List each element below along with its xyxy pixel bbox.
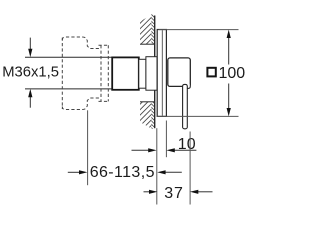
escutcheon plate (157, 30, 166, 117)
plate seam line (161, 30, 163, 116)
wall face extension line down (156, 128, 158, 204)
svg-text:10: 10 (178, 136, 196, 153)
dimension 10 right segment (174, 149, 197, 151)
wall hatching lower (106, 100, 187, 138)
dimension 66-113,5 right arrow (164, 171, 182, 173)
lever blade (183, 84, 188, 128)
sq100 extension line top (159, 29, 239, 31)
svg-text:100: 100 (219, 65, 246, 82)
dimension M36x1,5 lower arrow (28, 89, 32, 97)
sq100 extension line bottom (157, 115, 239, 117)
dimension 66-113,5 left arrow (68, 171, 81, 173)
cartridge extension line down (87, 110, 89, 185)
svg-text:66-113,5: 66-113,5 (90, 164, 155, 181)
wall finish layer hatching lower (149, 98, 158, 138)
collar ring (139, 59, 146, 88)
wall hole top edge (140, 43, 154, 45)
sleeve thick box (112, 57, 139, 89)
wall face line (154, 16, 156, 129)
wire shaft bottom line (threaded tube bottom) (25, 88, 112, 90)
dimension 10 left segment (132, 149, 150, 151)
sq100 dimension line (228, 37, 230, 110)
svg-text:37: 37 (164, 185, 184, 202)
wire shaft top line (threaded tube top) (25, 56, 112, 58)
through-wall piece (146, 57, 157, 90)
dimension 37 left arrow (144, 191, 151, 193)
wall hatching upper (106, 14, 187, 52)
label square100 (207, 65, 245, 82)
wall finish layer hatching upper (149, 12, 158, 55)
dimension M36x1,5 upper arrow (29, 38, 31, 108)
knob front extension line down (189, 132, 191, 205)
knob foot (186, 84, 190, 88)
wall hole bottom edge (140, 101, 154, 103)
handle knob (168, 58, 191, 87)
svg-text:M36x1,5: M36x1,5 (2, 65, 59, 81)
concealed cartridge dashed body (62, 37, 109, 110)
dimension 37 right arrow (197, 191, 213, 193)
ext line plate front for 10 (165, 121, 167, 158)
